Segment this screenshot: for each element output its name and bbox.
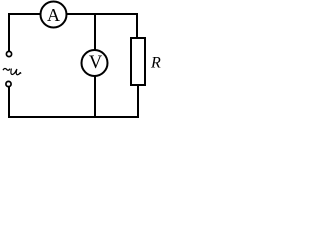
svg-text:A: A (47, 5, 60, 25)
svg-text:V: V (89, 53, 103, 73)
svg-text:R: R (150, 55, 161, 72)
